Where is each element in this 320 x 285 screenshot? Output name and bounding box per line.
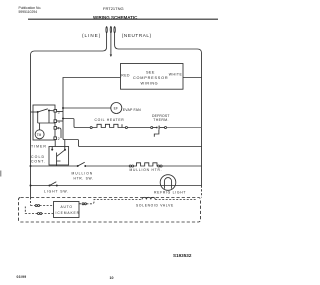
timer terminal 2 stub	[54, 140, 56, 147]
svg-text:(LINE): (LINE)	[82, 33, 101, 38]
title WIRING SCHEMATIC	[93, 15, 138, 20]
publication number text	[19, 6, 42, 14]
timer terminal 1	[54, 120, 57, 123]
svg-text:(NEUTRAL): (NEUTRAL)	[122, 33, 152, 38]
svg-text:AUTO: AUTO	[61, 205, 73, 209]
wire defrost therm to neutral	[167, 127, 202, 129]
svg-text:03/99: 03/99	[17, 275, 27, 279]
wire cold control feed	[64, 140, 66, 150]
svg-text:FRT21TNG: FRT21TNG	[103, 6, 124, 11]
wire evap fan	[63, 107, 111, 109]
timer motor TM	[35, 130, 44, 139]
label DEFROST THERM	[152, 114, 170, 122]
svg-text:COIL HEATER: COIL HEATER	[95, 118, 125, 122]
svg-text:MULLION HTR.: MULLION HTR.	[130, 168, 163, 172]
cold control	[49, 147, 69, 167]
ground prong arrow	[110, 33, 112, 57]
svg-text:5995110294: 5995110294	[19, 10, 38, 14]
mullion heater element	[134, 163, 158, 166]
timer terminal 2	[54, 137, 57, 140]
defrost thermostat	[151, 126, 167, 130]
svg-text:10: 10	[110, 276, 114, 280]
connector coil heater right	[125, 127, 127, 129]
svg-text:S193532: S193532	[173, 253, 192, 258]
wire mullion row	[31, 165, 78, 167]
svg-text:TM: TM	[37, 133, 42, 137]
svg-text:SOLENOID VALVE: SOLENOID VALVE	[136, 203, 174, 207]
wire mullion to neutral	[162, 165, 201, 167]
defrost timer T1	[31, 105, 64, 147]
auto icemaker box	[54, 202, 80, 218]
refrigerator light lamp	[160, 175, 176, 191]
svg-text:MULLION: MULLION	[72, 172, 94, 176]
line bus (left vertical)	[30, 55, 32, 198]
wire light row	[31, 185, 202, 187]
wire red compressor feed	[63, 78, 121, 139]
coil heater element	[92, 124, 125, 127]
wire terminal 1 to bus	[57, 120, 63, 122]
svg-text:SEE: SEE	[146, 71, 155, 75]
svg-text:WIRING: WIRING	[141, 82, 159, 86]
defrost therm probe hook	[154, 130, 159, 137]
wire icemaker lower return (dashed)	[42, 213, 54, 215]
scan edge mark	[0, 171, 1, 177]
wire line bus to icemaker (dashed)	[30, 198, 32, 206]
svg-text:CONT.: CONT.	[31, 160, 46, 164]
evap fan motor	[111, 103, 122, 114]
connector icemaker upper	[35, 205, 37, 207]
svg-text:HTR. SW.: HTR. SW.	[74, 177, 94, 181]
node evap junction	[62, 107, 64, 109]
connector coil heater left	[90, 127, 92, 129]
light switch	[49, 182, 58, 187]
connector mullion left	[129, 165, 131, 167]
wire terminal 3 to bus	[57, 111, 63, 113]
svg-text:EVAP FAN: EVAP FAN	[123, 108, 141, 112]
compressor box U1	[121, 64, 184, 90]
wire line-bus top	[31, 33, 107, 55]
svg-text:LIGHT SW.: LIGHT SW.	[44, 190, 69, 194]
svg-text:REFRIG LIGHT: REFRIG LIGHT	[154, 190, 186, 194]
plug prong ground	[110, 27, 111, 33]
solenoid valve coil	[142, 197, 155, 199]
connector solenoid left	[82, 203, 84, 205]
neutral bus dashed continuation	[201, 186, 203, 198]
model number text	[103, 6, 124, 11]
svg-text:EF: EF	[114, 107, 118, 111]
wire coil heater branch	[63, 119, 90, 128]
icemaker optional enclosure (dashed)	[19, 198, 201, 223]
wire white	[183, 77, 202, 79]
mullion heater switch	[77, 162, 87, 167]
node coil branch junction	[62, 118, 64, 120]
header rule	[28, 18, 218, 20]
neutral bus (right vertical)	[201, 53, 203, 186]
connector icemaker lower	[40, 213, 42, 215]
svg-text:TIMER: TIMER	[31, 144, 47, 148]
timer terminal 3	[54, 110, 57, 113]
wire solenoid to right (dashed)	[155, 199, 196, 201]
connector mullion right	[158, 165, 160, 167]
svg-text:THERM.: THERM.	[153, 118, 169, 122]
svg-text:2: 2	[58, 137, 60, 141]
timer terminal 4 stub	[57, 128, 61, 138]
svg-text:COMPRESSOR: COMPRESSOR	[133, 76, 168, 80]
svg-text:ICEMAKER: ICEMAKER	[56, 211, 80, 215]
plug prong neutral	[114, 27, 115, 33]
wire icemaker to solenoid (dashed)	[79, 203, 82, 205]
label MULLION HTR SW	[72, 172, 94, 181]
plug prong line	[106, 27, 107, 33]
label COLD CONT	[31, 155, 46, 163]
timer switch internals	[31, 111, 38, 113]
svg-text:RED: RED	[121, 74, 130, 78]
svg-text:4: 4	[57, 127, 59, 131]
wire to defrost therm	[127, 127, 150, 129]
svg-text:COLD: COLD	[31, 155, 45, 159]
wire neutral-bus top	[115, 33, 202, 53]
svg-text:WHITE: WHITE	[169, 73, 183, 77]
wire defrost limit to neutral	[63, 139, 202, 147]
timer terminal 4	[54, 127, 57, 130]
wire switch to mullion heater	[86, 165, 129, 167]
